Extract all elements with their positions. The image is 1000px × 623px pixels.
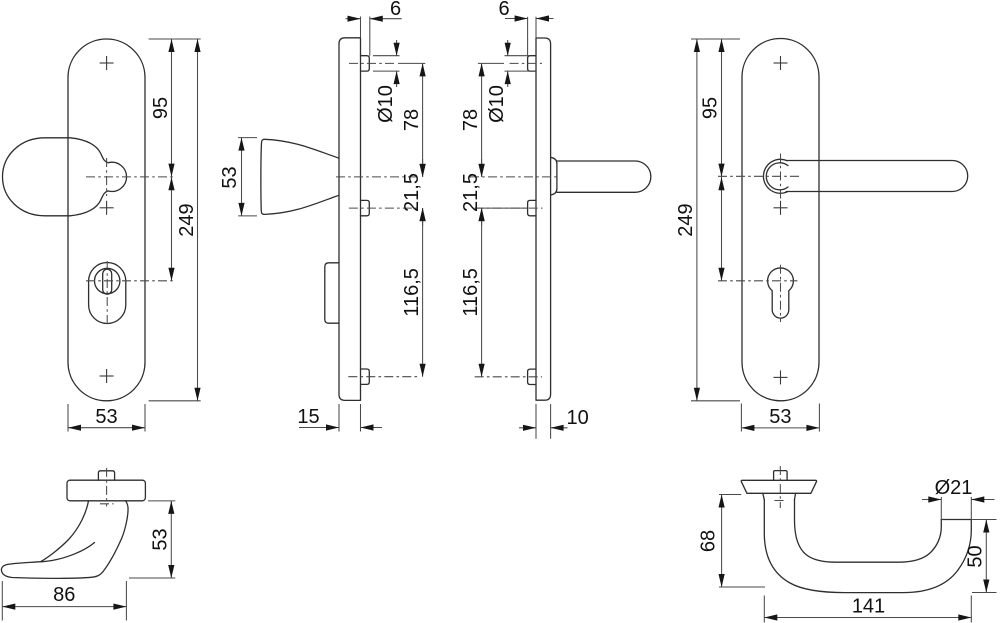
dimension 6 top view3 bbox=[498, 0, 553, 56]
centerline handle view2 bbox=[336, 176, 420, 178]
dimension 6 top view2 bbox=[346, 0, 402, 56]
knob profile view2 bbox=[261, 139, 339, 214]
lever neck right view6 bbox=[794, 493, 795, 500]
dimension 53 bottom view1 bbox=[68, 404, 145, 432]
screw boss middle view2 bbox=[361, 200, 370, 215]
dimension diam10 view2 bbox=[373, 40, 400, 123]
svg-text:249: 249 bbox=[675, 203, 697, 236]
cylinder rosette oval view1 bbox=[89, 263, 126, 324]
screw cross top view4 bbox=[774, 56, 788, 70]
spindle nub view5 bbox=[98, 471, 114, 480]
dimension 95 view4 bbox=[700, 39, 725, 177]
lever tube end cut view6 bbox=[941, 519, 971, 521]
centerline vertical view5 bbox=[106, 468, 108, 507]
cylinder boss view2 bbox=[325, 263, 339, 323]
plate profile view2 bbox=[339, 38, 361, 401]
svg-text:86: 86 bbox=[53, 584, 75, 606]
PZ cylinder hole view4 bbox=[768, 268, 794, 318]
dimension 86 view5 bbox=[2, 581, 126, 621]
spindle nub view6 bbox=[774, 471, 788, 481]
centerline mid screw view2 bbox=[349, 207, 420, 209]
svg-text:68: 68 bbox=[698, 530, 720, 552]
svg-text:116,5: 116,5 bbox=[460, 268, 482, 317]
knob blob view1 bbox=[3, 138, 127, 216]
extension line top view1 bbox=[149, 38, 201, 40]
svg-text:116,5: 116,5 bbox=[401, 268, 423, 317]
centerline bottom screw view2 bbox=[348, 376, 419, 378]
lever bar view4 bbox=[786, 161, 968, 192]
lever tube outer view6 bbox=[764, 500, 971, 593]
centerline handle view3 bbox=[470, 176, 560, 178]
screw boss bottom view3 bbox=[528, 369, 536, 384]
svg-text:Ø10: Ø10 bbox=[486, 85, 508, 123]
centerline top screw view2 bbox=[349, 62, 396, 64]
dimension 50 view6 bbox=[965, 520, 997, 593]
plate profile view3 bbox=[536, 38, 551, 400]
lever neck left view6 bbox=[763, 493, 765, 500]
centerline vertical view6 bbox=[779, 466, 781, 508]
dimension 249 view1 bbox=[176, 39, 201, 401]
dimension 141 view6 bbox=[764, 596, 971, 623]
svg-text:78: 78 bbox=[460, 109, 482, 131]
svg-text:15: 15 bbox=[297, 406, 319, 428]
lever rose inner arc view4 bbox=[766, 163, 788, 190]
knob centerline vertical view1 bbox=[106, 158, 108, 196]
screw cross bottom view4 bbox=[774, 370, 788, 384]
dimension 78 view3 bbox=[460, 63, 485, 176]
plate outline view1 bbox=[68, 39, 145, 401]
knob rose base view5 bbox=[67, 480, 145, 501]
handle centerline horizontal view4 bbox=[718, 175, 802, 177]
svg-text:78: 78 bbox=[401, 109, 423, 131]
dimension 68 view6 bbox=[698, 495, 766, 588]
screw cross mid view1 bbox=[100, 201, 114, 215]
knob centerline horizontal view1 bbox=[86, 176, 175, 178]
dimension 116,5 view3 bbox=[460, 208, 485, 377]
screw boss top view3 bbox=[528, 56, 536, 71]
screw cross top view1 bbox=[100, 56, 114, 70]
dimension 72 unlabeled view1 bbox=[168, 177, 174, 281]
lever tube inner view6 bbox=[795, 500, 942, 562]
screw boss top view2 bbox=[361, 56, 370, 71]
cylinder centerline vertical view1 bbox=[106, 261, 108, 327]
svg-text:10: 10 bbox=[566, 407, 588, 429]
svg-text:95: 95 bbox=[150, 97, 172, 119]
dimension diam21 view6 bbox=[922, 477, 995, 521]
svg-text:Ø10: Ø10 bbox=[375, 85, 397, 123]
extension line bottom view1 bbox=[149, 400, 201, 402]
svg-text:53: 53 bbox=[219, 166, 241, 188]
cylinder keyway slot view1 bbox=[103, 269, 112, 294]
dimension 116,5 view2 bbox=[401, 208, 426, 377]
centerline tick view5 bbox=[100, 503, 114, 505]
lever rose view6 bbox=[741, 480, 816, 493]
screw cross bottom view1 bbox=[100, 369, 114, 383]
plate outline view4 bbox=[742, 39, 819, 401]
knob crease line view5 bbox=[41, 543, 95, 562]
svg-text:53: 53 bbox=[150, 528, 172, 550]
svg-text:6: 6 bbox=[498, 0, 509, 20]
dimension 21,5 view2 bbox=[401, 159, 426, 226]
svg-text:141: 141 bbox=[852, 596, 885, 618]
screw boss bottom view2 bbox=[361, 369, 370, 384]
extension line top view4 bbox=[691, 38, 740, 40]
dimension 53 knob height view2 bbox=[219, 138, 257, 216]
cylinder circle view1 bbox=[95, 268, 120, 293]
svg-text:Ø21: Ø21 bbox=[935, 477, 973, 499]
centerline tick view6 bbox=[775, 500, 787, 502]
dimension 72 unlabeled view4 bbox=[718, 177, 724, 281]
cylinder centerline horizontal view4 bbox=[718, 280, 797, 282]
lever rose outer arc view4 bbox=[763, 159, 787, 193]
dimension 10 bottom view3 bbox=[519, 404, 589, 439]
lever collar view3 bbox=[551, 157, 557, 195]
cylinder centerline vertical view4 bbox=[780, 265, 782, 322]
dimension 21,5 view3 bbox=[460, 159, 527, 226]
dimension diam10 view3 bbox=[486, 40, 536, 123]
svg-text:21,5: 21,5 bbox=[401, 173, 423, 212]
dimension 53 view5 bbox=[129, 501, 175, 578]
centerline bottom screw view3 bbox=[475, 376, 542, 378]
centerline mid screw view3 bbox=[475, 207, 543, 209]
cylinder centerline horizontal view1 bbox=[86, 280, 175, 282]
svg-text:6: 6 bbox=[390, 0, 401, 20]
svg-text:21,5: 21,5 bbox=[460, 173, 482, 212]
svg-text:95: 95 bbox=[700, 97, 722, 119]
screw cross mid view4 bbox=[774, 201, 788, 215]
svg-text:53: 53 bbox=[95, 406, 117, 428]
dimension 95 view1 bbox=[150, 39, 175, 177]
handle centerline vertical view4 bbox=[780, 154, 782, 201]
lever grip bar view3 bbox=[557, 161, 651, 192]
svg-text:249: 249 bbox=[176, 203, 198, 236]
extension line bottom view4 bbox=[691, 400, 740, 402]
svg-text:53: 53 bbox=[769, 406, 791, 428]
centerline top screw view3 bbox=[510, 62, 542, 64]
dimension 249 view4 bbox=[675, 39, 700, 401]
dimension 15 bottom view2 bbox=[297, 404, 382, 432]
screw boss middle view3 bbox=[528, 200, 536, 215]
dimension 53 bottom view4 bbox=[741, 404, 819, 432]
knob curved body view5 bbox=[1, 501, 128, 579]
svg-text:50: 50 bbox=[965, 545, 987, 567]
dimension 78 view2 bbox=[401, 63, 426, 176]
